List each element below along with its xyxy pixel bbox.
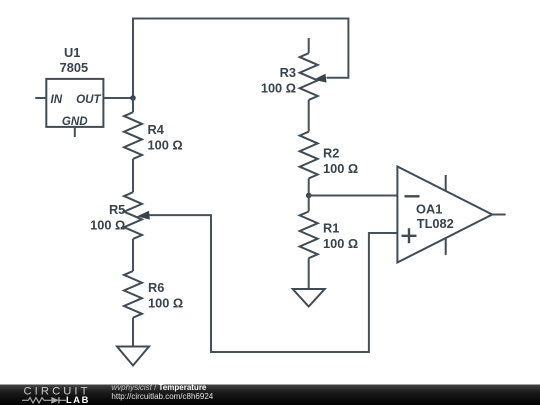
svg-text:100 Ω: 100 Ω	[323, 236, 358, 251]
ground under R1	[293, 289, 325, 307]
wire op-amp non-inverting input to R5 wiper	[150, 215, 398, 352]
svg-text:R6: R6	[148, 280, 164, 295]
svg-text:LAB: LAB	[66, 395, 90, 405]
node B junction dot	[306, 193, 312, 199]
resistor R2	[300, 132, 358, 179]
svg-text:R2: R2	[323, 145, 339, 160]
wire node up over to R3 wiper	[133, 19, 348, 99]
potentiometer R3	[261, 38, 318, 100]
wire R1 to ground	[308, 258, 310, 289]
svg-text:100 Ω: 100 Ω	[323, 161, 358, 176]
ground under R6	[117, 347, 149, 366]
U1 IN pin stub	[35, 97, 46, 99]
voltage regulator U1 7805	[46, 45, 103, 128]
resistor R1	[300, 196, 358, 259]
svg-text:http://circuitlab.com/c8h6924: http://circuitlab.com/c8h6924	[111, 392, 213, 401]
svg-text:OA1: OA1	[416, 202, 442, 217]
svg-text:TL082: TL082	[417, 216, 454, 231]
U1 GND pin stub	[74, 127, 76, 137]
svg-text:GND: GND	[62, 115, 88, 128]
resistor R4	[124, 98, 183, 159]
svg-text:100 Ω: 100 Ω	[148, 138, 183, 153]
wire R3 to R2	[308, 100, 310, 132]
R5 wiper arrowhead	[137, 211, 150, 220]
svg-text:R1: R1	[323, 221, 339, 236]
resistor R6	[124, 271, 183, 318]
wire R5 to R6	[132, 239, 134, 271]
svg-text:100 Ω: 100 Ω	[90, 218, 125, 233]
wire U1 OUT to node	[103, 97, 133, 99]
svg-text:IN: IN	[51, 93, 63, 106]
logo wire-resistor-diode glyph	[22, 397, 66, 403]
potentiometer R5	[90, 192, 142, 239]
svg-text:100 Ω: 100 Ω	[261, 81, 296, 96]
svg-text:OUT: OUT	[76, 93, 101, 106]
wire node B to op-amp inverting input	[309, 195, 398, 197]
node A junction dot	[130, 95, 136, 101]
R3 wiper arrowhead	[314, 74, 327, 83]
svg-text:R3: R3	[280, 65, 296, 80]
wire R6 to ground	[132, 318, 134, 347]
svg-text:R4: R4	[148, 122, 165, 137]
wire R2 to node B	[308, 178, 310, 195]
svg-text:U1: U1	[64, 45, 80, 60]
wire R4 to R5	[132, 159, 134, 192]
svg-text:7805: 7805	[60, 60, 88, 75]
op-amp OA1 TL082	[397, 167, 505, 263]
svg-text:R5: R5	[109, 202, 125, 217]
svg-text:100 Ω: 100 Ω	[148, 296, 183, 311]
